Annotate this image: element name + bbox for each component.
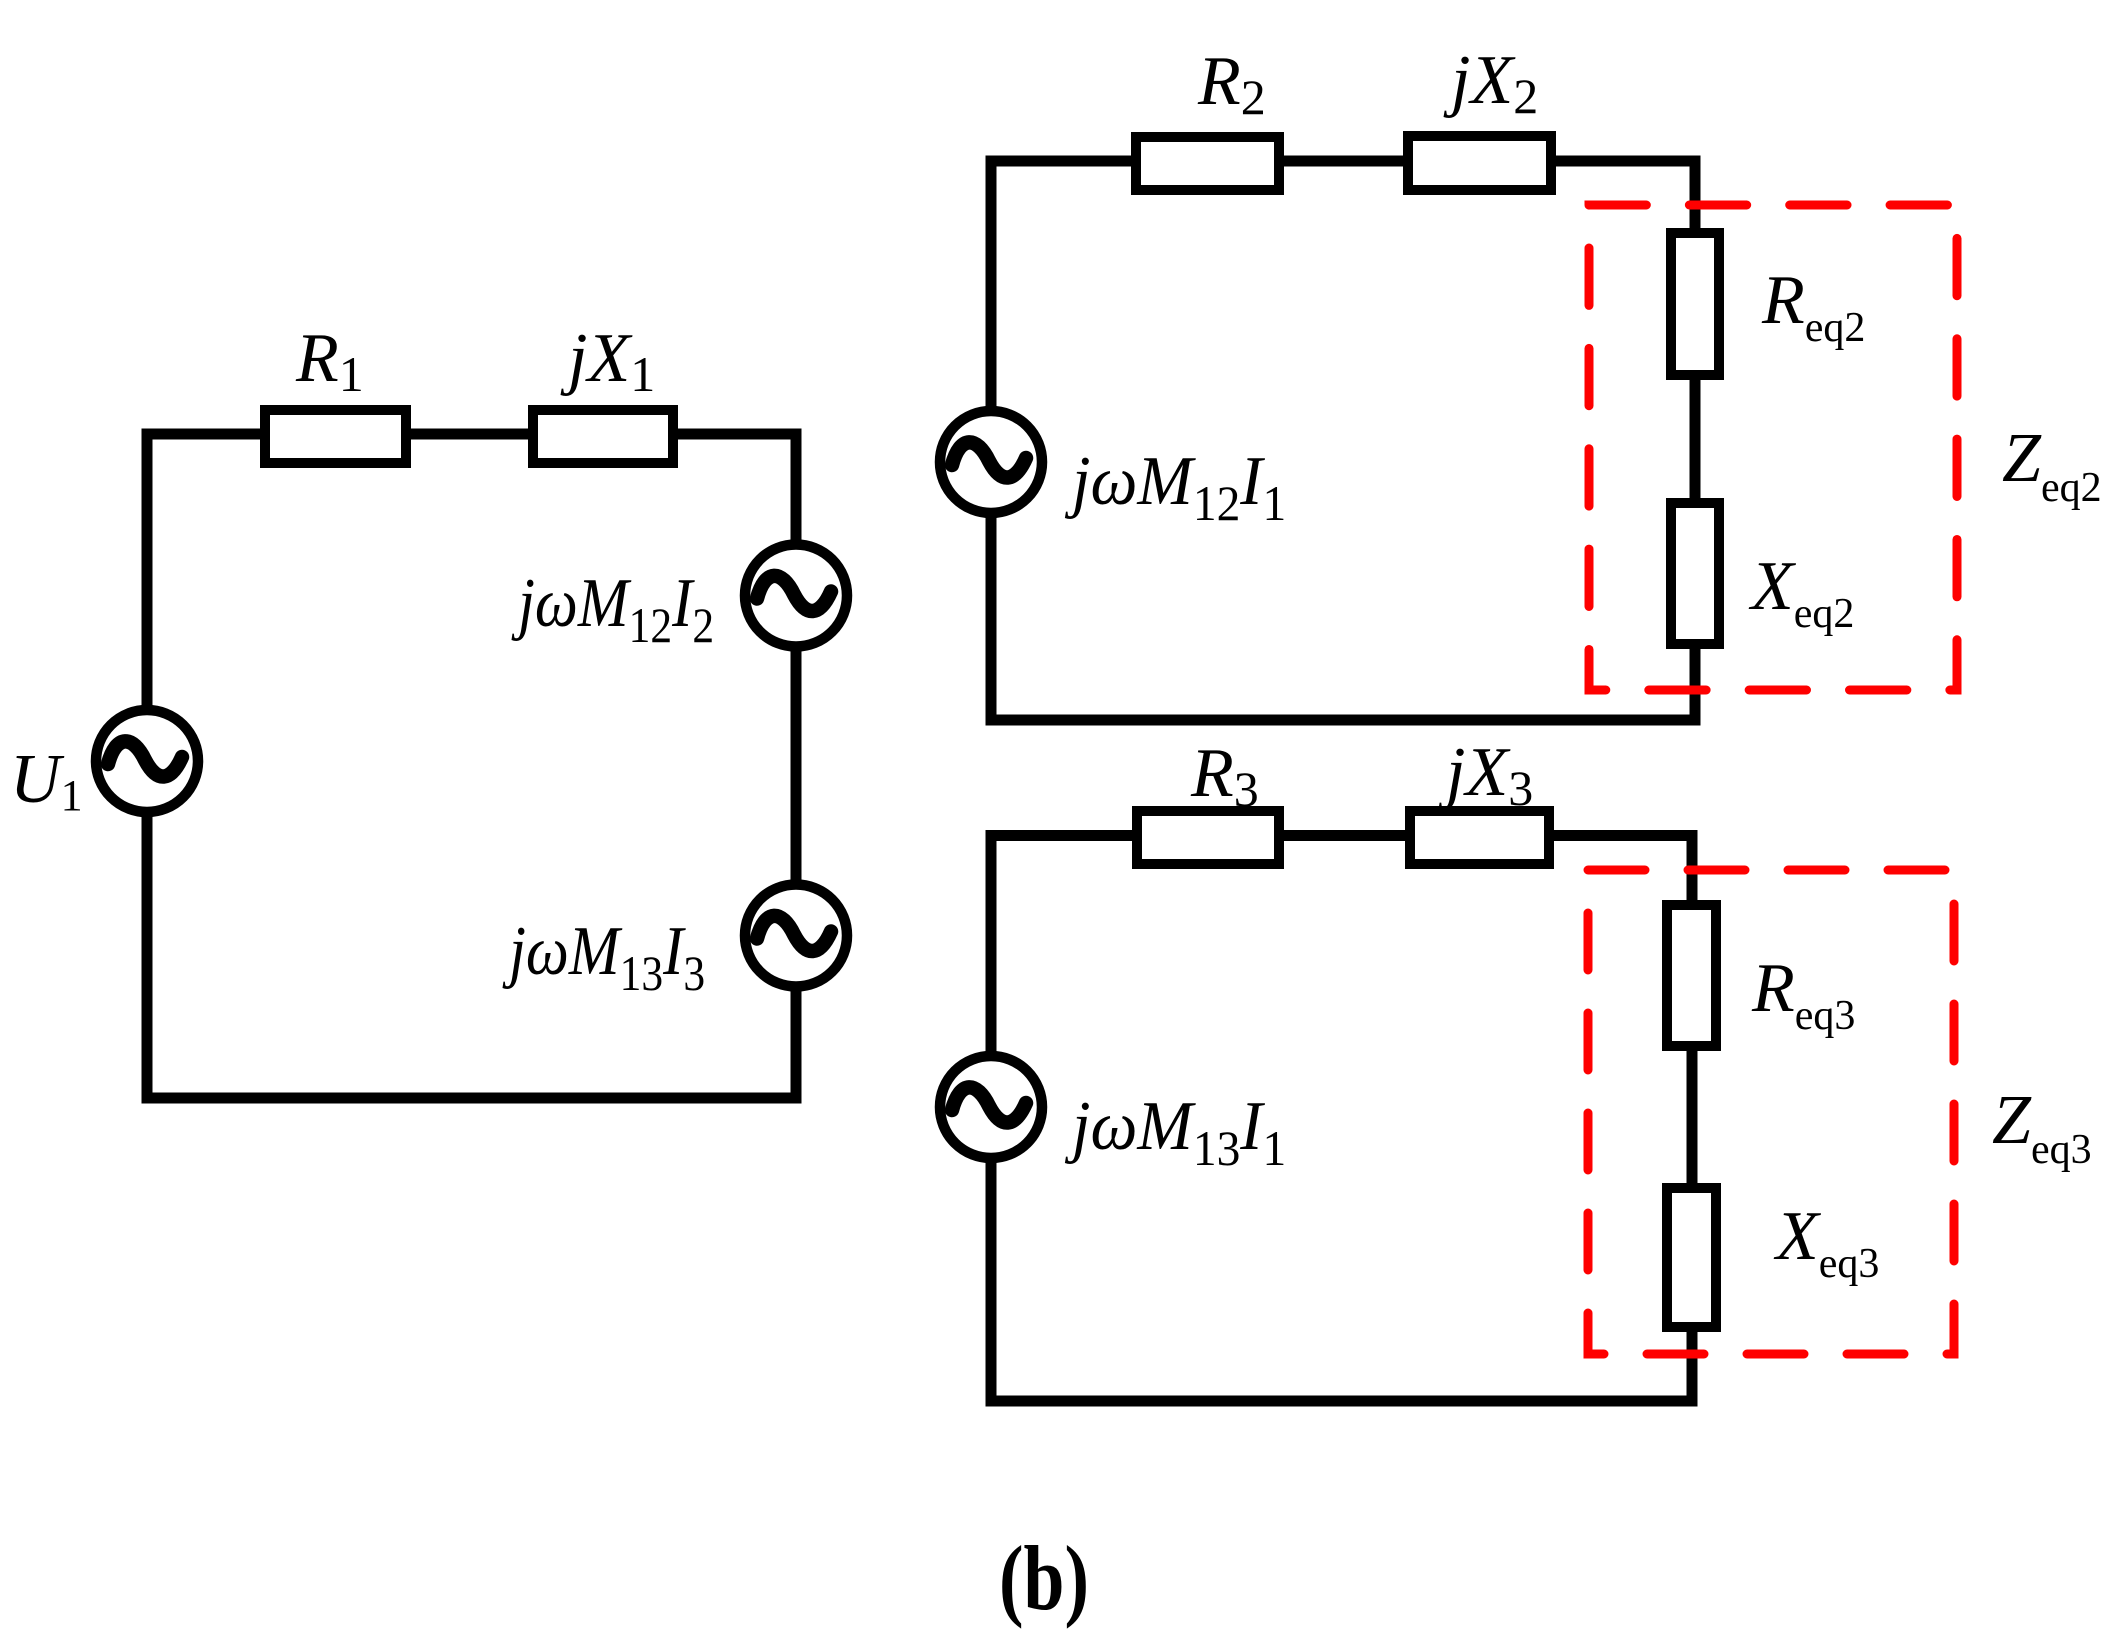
resistor R3 bbox=[1137, 811, 1279, 864]
svg-text:R2: R2 bbox=[1197, 43, 1266, 125]
label jwM12I1 bbox=[1064, 441, 1286, 531]
svg-text:Xeq2: Xeq2 bbox=[1748, 548, 1854, 637]
resistor Req3 bbox=[1667, 905, 1716, 1046]
wire loop of circuit 3 bbox=[991, 836, 1692, 1402]
label jwM13I3 bbox=[502, 913, 706, 1002]
source jwM12I1 bbox=[940, 411, 1042, 513]
svg-text:(b): (b) bbox=[999, 1527, 1089, 1629]
reactance Xeq2 bbox=[1671, 503, 1719, 644]
svg-text:U1: U1 bbox=[10, 741, 83, 820]
svg-text:Req3: Req3 bbox=[1751, 950, 1855, 1039]
wire loop of circuit 1 bbox=[147, 434, 796, 1098]
resistor Req2 bbox=[1671, 233, 1719, 375]
source jwM13I1 bbox=[940, 1056, 1042, 1158]
inductor jX3 bbox=[1410, 811, 1549, 864]
svg-text:Xeq3: Xeq3 bbox=[1773, 1198, 1879, 1287]
svg-text:Zeq2: Zeq2 bbox=[2002, 420, 2102, 511]
svg-text:jX3: jX3 bbox=[1438, 734, 1533, 816]
inductor jX2 bbox=[1408, 136, 1551, 190]
svg-text:jX1: jX1 bbox=[560, 320, 655, 402]
dashed impedance box Zeq2 bbox=[1589, 205, 1957, 690]
svg-text:R3: R3 bbox=[1190, 735, 1259, 817]
source U1 bbox=[96, 710, 198, 812]
resistor R2 bbox=[1136, 137, 1279, 190]
svg-text:Req2: Req2 bbox=[1761, 262, 1865, 351]
svg-text:R1: R1 bbox=[295, 320, 364, 402]
resistor R1 bbox=[265, 410, 406, 463]
inductor jX1 bbox=[533, 410, 673, 463]
wire loop of circuit 2 bbox=[991, 161, 1695, 720]
label jwM12I2 bbox=[511, 565, 715, 654]
svg-text:Zeq3: Zeq3 bbox=[1992, 1082, 2092, 1173]
svg-text:jωM12I1: jωM12I1 bbox=[1064, 441, 1286, 531]
svg-text:jωM13I3: jωM13I3 bbox=[502, 913, 706, 1002]
label jwM13I1 bbox=[1064, 1086, 1286, 1176]
svg-text:jωM12I2: jωM12I2 bbox=[511, 565, 715, 654]
dashed impedance box Zeq3 bbox=[1588, 870, 1954, 1354]
source jwM13I3 bbox=[745, 885, 847, 987]
svg-text:jωM13I1: jωM13I1 bbox=[1064, 1086, 1286, 1176]
svg-text:jX2: jX2 bbox=[1443, 42, 1538, 124]
reactance Xeq3 bbox=[1667, 1188, 1716, 1327]
source jwM12I2 bbox=[745, 545, 847, 647]
